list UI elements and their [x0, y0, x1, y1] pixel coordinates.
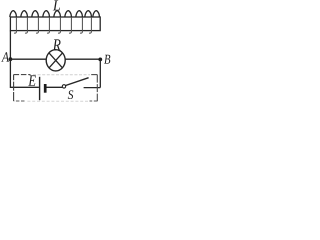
label S — [68, 90, 74, 99]
node B junction dot — [98, 58, 102, 62]
dashed box left edge — [13, 75, 15, 101]
dashed box bottom edge right stub — [90, 100, 98, 102]
wire A to lamp — [10, 58, 46, 60]
switch S lever — [66, 78, 89, 86]
label E — [28, 75, 36, 85]
wire battery to bottom-left corner and up to A — [10, 59, 39, 87]
wire right vertical from B down — [99, 59, 101, 87]
wire left vertical from coil to node A — [9, 31, 11, 60]
node A junction dot — [9, 57, 13, 61]
label R — [53, 39, 61, 50]
dashed box top edge right segment — [91, 74, 97, 76]
wire bottom right to switch — [84, 87, 101, 89]
inductor L winding arcs — [10, 11, 100, 17]
label L — [53, 0, 60, 10]
inductor L coil core band — [10, 17, 100, 31]
battery E long thin plate — [39, 77, 41, 100]
dashed box top edge middle faint segment — [33, 74, 90, 76]
wire lamp to node B — [65, 58, 100, 60]
dashed box top edge left segment — [14, 74, 31, 76]
dashed box bottom edge faint middle — [26, 100, 88, 102]
battery E short thick plate — [44, 84, 47, 93]
dashed box right edge — [96, 75, 98, 102]
label B — [104, 55, 110, 64]
dashed box bottom edge left stub — [14, 100, 25, 102]
inductor L winding front verticals with bottom hooks — [14, 17, 91, 33]
switch S pivot circle — [62, 85, 65, 88]
lamp R cross — [49, 53, 63, 68]
label A — [1, 52, 9, 61]
wire switch to battery — [46, 86, 62, 88]
lamp R circle — [46, 50, 65, 71]
